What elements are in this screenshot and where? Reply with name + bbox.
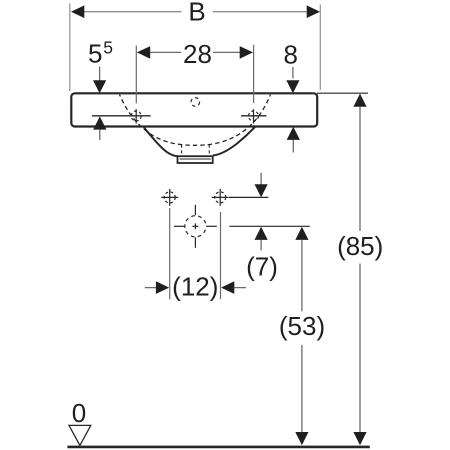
svg-text:0: 0 <box>72 398 86 428</box>
svg-text:(7): (7) <box>246 252 278 282</box>
svg-text:(12): (12) <box>172 271 218 301</box>
svg-text:B: B <box>188 0 205 26</box>
svg-text:5: 5 <box>103 37 113 57</box>
svg-text:8: 8 <box>283 39 297 69</box>
svg-text:(53): (53) <box>279 311 325 341</box>
svg-text:(85): (85) <box>337 231 383 261</box>
svg-text:28: 28 <box>183 39 212 69</box>
svg-text:5: 5 <box>88 39 102 69</box>
